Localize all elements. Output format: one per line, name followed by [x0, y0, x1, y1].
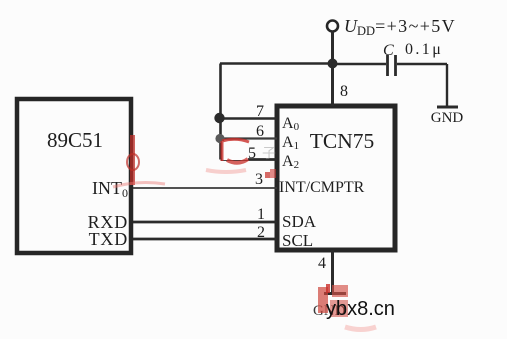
ground (bottom, pin 4)	[324, 292, 346, 295]
watermark red stroke over 89C51 edge	[113, 135, 165, 187]
svg-text:8: 8	[340, 83, 348, 100]
wire UDD vertical to pin 8	[331, 32, 334, 107]
svg-text:5: 5	[248, 145, 256, 162]
node pin 7 junction	[214, 113, 224, 123]
wire pin 4 down	[331, 250, 334, 294]
svg-text:INT/CMPTR: INT/CMPTR	[279, 179, 365, 196]
power terminal UDD circle	[327, 21, 338, 32]
svg-text:ybx8.cn: ybx8.cn	[326, 298, 395, 320]
svg-text:SCL: SCL	[282, 231, 313, 250]
node UDD junction	[328, 59, 338, 69]
svg-text:6: 6	[256, 123, 264, 140]
svg-text:3: 3	[255, 171, 263, 188]
svg-text:TCN75: TCN75	[310, 129, 375, 153]
wire top horizontal (junction to A-pins bus)	[220, 62, 333, 64]
wire pin 5 (A2)	[221, 158, 278, 161]
watermark red stamp at bottom ground	[318, 284, 376, 330]
svg-text:子: 子	[262, 146, 276, 162]
svg-text:TXD: TXD	[89, 229, 128, 249]
svg-text:89C51: 89C51	[47, 128, 103, 152]
watermark red stamp near pin 5	[206, 139, 276, 178]
svg-text:C: C	[383, 42, 394, 59]
capacitor right wire	[397, 63, 447, 65]
wire pin 6 (A1)	[221, 137, 278, 139]
wire pin 7 (A0)	[221, 117, 278, 119]
svg-text:2: 2	[257, 224, 265, 241]
IC U1 89C51 box	[17, 99, 131, 253]
svg-text:GND: GND	[431, 110, 464, 126]
capacitor C left wire	[333, 63, 387, 65]
capacitor C plates	[386, 55, 389, 76]
wire TXD to pin 2 (SCL)	[133, 238, 277, 241]
wire A-pins vertical bus	[219, 64, 222, 160]
wire down to right ground	[446, 64, 448, 106]
svg-text:SDA: SDA	[282, 212, 317, 231]
svg-text:7: 7	[256, 103, 264, 120]
ground (right)	[437, 106, 458, 109]
svg-text:0.1μ: 0.1μ	[405, 41, 443, 58]
svg-text:1: 1	[257, 206, 265, 223]
node pin 6 junction	[215, 134, 224, 143]
svg-text:4: 4	[318, 255, 326, 272]
wire INT0 to pin 3	[133, 187, 277, 189]
wire RXD to pin 1 (SDA)	[133, 221, 277, 224]
IC U2 TCN75 box	[277, 106, 395, 250]
